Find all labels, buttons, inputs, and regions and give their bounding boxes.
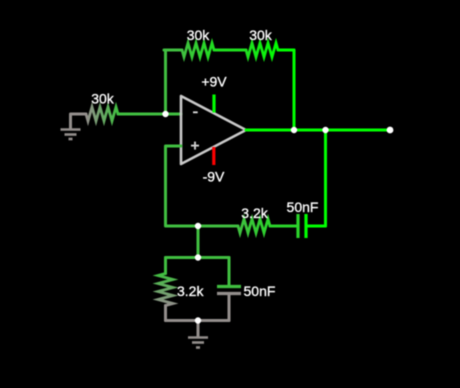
svg-text:-9V: -9V [203, 169, 225, 185]
node inverting input junction [162, 111, 168, 117]
wire from inverting-input node up to top feedback [164, 50, 168, 114]
node output junction with top feedback [291, 127, 297, 133]
resistor R2 30k (top feedback, right) [230, 27, 294, 57]
ground G2 (bottom tank) [188, 321, 208, 348]
capacitor C1 50nF (lower feedback) [286, 199, 326, 238]
wire junction to R4 [198, 225, 222, 228]
resistor R1 30k (top feedback, left) [164, 27, 230, 57]
svg-text:50nF: 50nF [287, 199, 319, 215]
svg-text:30k: 30k [91, 91, 115, 107]
node lower feedback junction [195, 223, 201, 229]
svg-text:+9V: +9V [201, 74, 227, 90]
node output junction with C1 branch [322, 127, 328, 133]
power -9V supply stub [203, 147, 225, 185]
svg-text:3.2k: 3.2k [241, 205, 268, 221]
ground G1 (input side) [61, 114, 81, 139]
svg-text:30k: 30k [249, 27, 273, 43]
resistor R4 3.2k (lower feedback) [222, 205, 286, 233]
resistor R3 30k (input) [71, 91, 135, 122]
capacitor C2 50nF (bottom tank) [217, 258, 275, 321]
node bottom RC top junction [195, 254, 201, 260]
svg-text:30k: 30k [187, 27, 211, 43]
wire R3 to inverting input [135, 113, 182, 116]
wire non-inverting input to lower feedback rail [166, 146, 199, 226]
wire top feedback right leg down to output [293, 50, 296, 130]
resistor R5 3.2k (bottom tank) [158, 258, 204, 321]
op-amp U1 [181, 96, 246, 164]
wire C1 branch up to output [324, 130, 327, 226]
node ground junction [195, 317, 201, 323]
node output terminal [387, 127, 394, 134]
svg-text:3.2k: 3.2k [177, 283, 204, 299]
wire bottom RC bottom rail [166, 319, 230, 322]
svg-text:50nF: 50nF [244, 283, 276, 299]
power +9V supply stub [201, 74, 227, 113]
wire op-amp output [246, 129, 390, 132]
wire bottom RC top rail [166, 256, 230, 259]
wire junction down to bottom RC tank [197, 226, 200, 258]
